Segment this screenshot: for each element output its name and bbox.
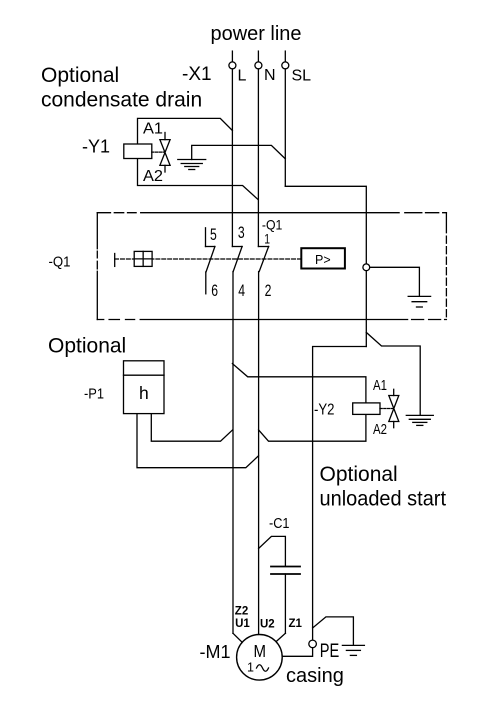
wire P1 left lead to N [137, 414, 259, 468]
svg-text:SL: SL [292, 68, 312, 85]
breaker Q1 enclosure top [97, 212, 446, 214]
wire Y2 top feed from L [232, 364, 366, 403]
svg-text:1: 1 [264, 231, 270, 246]
wire Q1 earth branch [370, 267, 420, 296]
breaker Q1 contact 5-6 lower [205, 272, 207, 294]
coil Y1 [124, 144, 152, 159]
breaker Q1 manual actuator box [134, 251, 152, 266]
pressure switch P box [301, 248, 345, 268]
terminal L stub [231, 51, 233, 62]
svg-text:A1: A1 [373, 377, 387, 394]
svg-text:A1: A1 [143, 121, 163, 138]
breaker Q1 actuator tick [114, 254, 116, 267]
valve Y1 body [160, 140, 170, 166]
svg-text:condensate drain: condensate drain [41, 89, 202, 112]
svg-text:A2: A2 [373, 421, 387, 438]
svg-text:power line: power line [211, 23, 302, 45]
wire Y2 bottom feed to N [259, 414, 366, 441]
terminal SL circle [282, 62, 289, 69]
valve Y2 coil link dashed [380, 408, 393, 410]
svg-text:1: 1 [247, 661, 254, 675]
breaker Q1 contact 1-2 blade [259, 247, 268, 272]
coil Y2 [353, 403, 380, 415]
wire C1 bottom lead [284, 574, 286, 633]
svg-text:M: M [254, 641, 267, 661]
terminal PE circle [309, 640, 317, 648]
breaker Q1 contact 3-4 foot [232, 246, 242, 248]
svg-text:L: L [238, 68, 247, 85]
valve Y1 lower stub [164, 165, 166, 172]
terminal N stub [257, 51, 259, 62]
svg-text:-Q1: -Q1 [49, 254, 71, 271]
svg-text:unloaded start: unloaded start [320, 488, 447, 511]
svg-text:casing: casing [286, 665, 344, 687]
svg-text:6: 6 [211, 282, 218, 300]
breaker Q1 enclosure right [445, 213, 447, 320]
breaker Q1 contact 5-6 blade [206, 247, 215, 273]
terminal L circle [229, 62, 236, 69]
motor M1 circle [237, 635, 283, 681]
wire SL horizontal to Q1 [285, 186, 366, 346]
hour meter P1 box [124, 361, 165, 414]
wire motor Z1 entry [276, 633, 285, 641]
svg-text:4: 4 [238, 282, 245, 300]
svg-text:-Q1: -Q1 [262, 217, 283, 233]
breaker Q1 contact 3-4 blade [233, 247, 242, 272]
svg-text:5: 5 [210, 226, 217, 244]
breaker Q1 contact 5-6 upper [205, 228, 207, 247]
svg-text:-C1: -C1 [269, 516, 290, 532]
wire P1 right lead to L [151, 414, 232, 442]
svg-text:U1: U1 [235, 618, 250, 630]
svg-text:2: 2 [265, 282, 272, 300]
wire SL ground bus to Y2 area [282, 347, 366, 657]
valve Y2 lower stub [393, 422, 395, 428]
svg-text:Optional: Optional [41, 64, 119, 87]
node SL terminal circle in Q1 [363, 264, 370, 271]
ground Q1 internal earth [408, 295, 430, 297]
wire branch to Y2 earth [366, 332, 420, 415]
svg-text:3: 3 [238, 224, 245, 242]
terminal SL stub [284, 51, 286, 62]
breaker Q1 enclosure left [96, 213, 98, 320]
wire motor U1 entry [233, 633, 242, 642]
svg-text:Z2: Z2 [235, 606, 248, 618]
wire C1 top lead [259, 536, 286, 566]
wire N vertical upper [257, 69, 259, 247]
svg-text:Optional: Optional [320, 463, 398, 486]
svg-text:h: h [139, 383, 149, 403]
svg-text:-M1: -M1 [200, 642, 231, 662]
wire branch to casing earth [313, 617, 354, 646]
svg-text:Z1: Z1 [289, 618, 303, 630]
valve Y1 upper stub [164, 133, 166, 140]
wire Y1 bottom feed to N [138, 159, 259, 200]
svg-text:A2: A2 [143, 168, 163, 185]
ground Y2 earth [406, 414, 433, 416]
wire L vertical upper [231, 69, 233, 247]
wire Y1 top feed from L [138, 118, 233, 144]
svg-text:U2: U2 [260, 618, 275, 630]
capacitor C1 plates [271, 566, 300, 568]
valve Y2 body [389, 396, 399, 422]
ground Y1 earth [178, 159, 206, 161]
valve Y2 upper stub [393, 389, 395, 395]
svg-text:-Y2: -Y2 [314, 402, 335, 419]
valve Y1 coil link dashed [152, 151, 164, 153]
svg-text:PE: PE [320, 641, 340, 662]
wire L vertical lower [232, 272, 234, 634]
svg-text:-X1: -X1 [182, 64, 212, 85]
wire SL vertical upper [284, 69, 286, 186]
svg-text:P>: P> [315, 253, 331, 267]
svg-text:-P1: -P1 [84, 385, 104, 402]
svg-text:Optional: Optional [48, 335, 126, 358]
breaker Q1 contact 1-2 foot [258, 246, 268, 248]
wire SL to earth [192, 145, 286, 159]
motor sine symbol [257, 665, 269, 672]
svg-text:N: N [264, 67, 276, 84]
ground casing earth [342, 644, 364, 646]
svg-text:-Y1: -Y1 [82, 137, 110, 157]
terminal N circle [255, 62, 262, 69]
breaker Q1 actuator dashed link [115, 258, 302, 260]
breaker Q1 enclosure bottom [97, 319, 446, 321]
wire N vertical lower [258, 272, 260, 635]
